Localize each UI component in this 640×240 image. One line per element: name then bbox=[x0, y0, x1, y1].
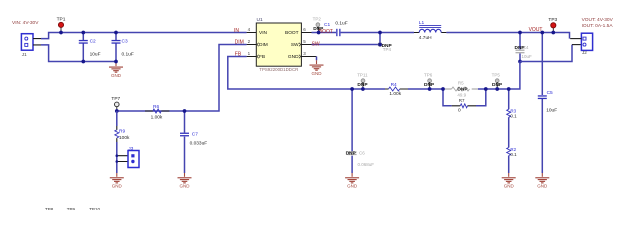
wire FB net from U1 down to sense row bbox=[228, 57, 385, 90]
svg-text:TP5: TP5 bbox=[492, 73, 501, 78]
svg-text:J3: J3 bbox=[128, 146, 133, 151]
wire L1 to VOUT / J2 bbox=[446, 33, 569, 39]
svg-text:IN: IN bbox=[234, 28, 239, 34]
svg-text:C4: C4 bbox=[523, 45, 529, 50]
svg-text:TP9: TP9 bbox=[67, 207, 76, 210]
svg-text:TP6: TP6 bbox=[424, 72, 433, 77]
svg-text:4.7uH: 4.7uH bbox=[419, 35, 432, 41]
svg-text:R4: R4 bbox=[391, 82, 397, 88]
svg-text:VIN: 4V-30V: VIN: 4V-30V bbox=[12, 20, 39, 26]
svg-text:1: 1 bbox=[248, 51, 251, 56]
svg-text:10uF: 10uF bbox=[522, 54, 533, 59]
svg-text:TP3: TP3 bbox=[548, 17, 557, 23]
svg-text:5: 5 bbox=[303, 39, 306, 44]
svg-text:U1: U1 bbox=[257, 17, 263, 23]
connector J1 bbox=[21, 34, 41, 57]
inductor L1 bbox=[414, 20, 446, 41]
svg-text:DIM: DIM bbox=[259, 42, 268, 48]
svg-text:49.9: 49.9 bbox=[457, 92, 466, 97]
pin stubs U1 right bbox=[301, 33, 316, 57]
connector J3 bbox=[116, 146, 140, 168]
svg-text:SW: SW bbox=[291, 42, 299, 48]
svg-text:R6: R6 bbox=[153, 104, 159, 110]
svg-text:BOOT: BOOT bbox=[285, 30, 299, 36]
resistor R7 bbox=[452, 98, 476, 113]
capacitor C6 (DNP) branch bbox=[346, 87, 375, 173]
ground under C3 bbox=[109, 62, 123, 78]
svg-text:1.00k: 1.00k bbox=[389, 91, 401, 97]
svg-text:C2: C2 bbox=[90, 38, 96, 44]
svg-text:VOUT: 4V-30V: VOUT: 4V-30V bbox=[582, 17, 614, 23]
svg-text:TP10: TP10 bbox=[89, 207, 100, 210]
ground under C7 bbox=[178, 173, 192, 189]
testpoint TP11 (DNP) bbox=[357, 72, 368, 90]
resistor R5 (DNP) bbox=[441, 81, 488, 98]
testpoint TP1 bbox=[57, 17, 66, 33]
ground under C6 bbox=[345, 173, 359, 189]
wire VIN rail from J1 to U1 VIN bbox=[41, 33, 247, 39]
svg-text:VIN: VIN bbox=[259, 30, 268, 36]
capacitor C1 bbox=[324, 21, 348, 37]
svg-text:TP8: TP8 bbox=[45, 207, 54, 210]
svg-text:L1: L1 bbox=[419, 20, 425, 26]
svg-text:10uF: 10uF bbox=[90, 51, 101, 57]
svg-text:6: 6 bbox=[303, 27, 306, 32]
svg-text:J2: J2 bbox=[582, 50, 587, 55]
svg-text:GND: GND bbox=[288, 54, 299, 60]
ground under R2 bbox=[502, 173, 516, 189]
svg-text:2: 2 bbox=[248, 39, 251, 44]
svg-text:0.1uF: 0.1uF bbox=[122, 51, 134, 57]
svg-text:0: 0 bbox=[458, 108, 461, 114]
capacitor C2 bbox=[79, 38, 101, 57]
svg-text:3: 3 bbox=[303, 51, 306, 56]
resistor R6 bbox=[145, 104, 169, 120]
svg-text:SW: SW bbox=[312, 42, 320, 48]
svg-text:TP1: TP1 bbox=[57, 17, 66, 23]
svg-text:C7: C7 bbox=[192, 131, 198, 137]
svg-text:TP2: TP2 bbox=[313, 16, 322, 21]
svg-text:DNP: DNP bbox=[346, 151, 357, 157]
svg-text:0.033uF: 0.033uF bbox=[190, 141, 208, 147]
resistor R9 branch bbox=[115, 111, 130, 173]
svg-text:J1: J1 bbox=[22, 52, 27, 57]
resistor R3 bbox=[507, 109, 517, 119]
svg-text:TP4: TP4 bbox=[383, 47, 392, 52]
capacitor C7 branch bbox=[180, 109, 207, 173]
wire DIM net from U1 to RC row bbox=[117, 45, 247, 112]
ground under R9/J3 bbox=[110, 173, 124, 189]
capacitor C4 (DNP) bbox=[515, 31, 533, 64]
wire LED- rail to J2 pin2 bbox=[520, 45, 572, 62]
svg-text:10uF: 10uF bbox=[546, 107, 557, 113]
svg-text:IOUT: 0A-1.5A: IOUT: 0A-1.5A bbox=[582, 23, 614, 29]
testpoint TP5 (DNP) bbox=[492, 73, 503, 91]
testpoint TP7 bbox=[111, 96, 120, 113]
wire C2 branch bbox=[82, 33, 84, 62]
svg-text:C6: C6 bbox=[359, 150, 365, 155]
svg-text:VOUT: VOUT bbox=[529, 27, 543, 33]
svg-text:1.00k: 1.00k bbox=[151, 114, 163, 120]
svg-text:C3: C3 bbox=[122, 38, 128, 44]
connector J2 bbox=[570, 33, 592, 55]
svg-text:FB: FB bbox=[259, 54, 265, 60]
capacitor C5 bbox=[538, 90, 557, 113]
svg-text:R5: R5 bbox=[458, 81, 464, 86]
svg-text:C5: C5 bbox=[547, 90, 553, 96]
ground under C5 bbox=[535, 173, 549, 189]
svg-text:R7: R7 bbox=[459, 98, 465, 103]
svg-text:TPS92200D1DDCR: TPS92200D1DDCR bbox=[259, 67, 298, 72]
wire C1 to L1 bbox=[341, 32, 414, 34]
wire J1 pin2 to bottom rail bbox=[41, 45, 116, 62]
svg-text:TP11: TP11 bbox=[357, 72, 368, 77]
svg-text:0.1uF: 0.1uF bbox=[335, 21, 347, 27]
wire SW net bbox=[312, 33, 381, 45]
ground under U1 pin3 bbox=[316, 57, 318, 61]
svg-text:4: 4 bbox=[248, 27, 251, 32]
svg-text:BOOT: BOOT bbox=[319, 29, 333, 35]
testpoint TP3 bbox=[548, 17, 557, 35]
resistor chain R3 R2 wire bbox=[508, 89, 510, 173]
junction dots input section bbox=[59, 31, 63, 35]
resistor R2 bbox=[507, 147, 517, 157]
svg-text:C1: C1 bbox=[324, 22, 330, 28]
svg-text:0.068uF: 0.068uF bbox=[358, 162, 375, 167]
pin stubs U1 left bbox=[247, 33, 257, 57]
svg-text:0.1: 0.1 bbox=[510, 114, 517, 119]
sense row wires bbox=[408, 62, 520, 90]
svg-text:TP7: TP7 bbox=[111, 96, 120, 102]
svg-text:R9: R9 bbox=[119, 129, 125, 135]
wire C3 branch bbox=[115, 33, 117, 62]
testpoint TP6 (DNP) bbox=[424, 72, 435, 90]
svg-text:100k: 100k bbox=[119, 135, 130, 141]
wire R7 detour path bbox=[443, 89, 486, 106]
svg-text:0.1: 0.1 bbox=[510, 152, 517, 157]
testpoint TP2 (DNP) bbox=[313, 16, 325, 32]
junction SW/BOOT joint + testpoint TP4 (DNP) bbox=[378, 31, 392, 52]
capacitor C5 branch wire bbox=[541, 33, 543, 174]
resistor R4 bbox=[385, 82, 408, 97]
op-amp U1 TPS92200 bbox=[256, 17, 301, 72]
capacitor C3 bbox=[112, 38, 134, 57]
wire BOOT net to C1 bbox=[312, 32, 337, 34]
